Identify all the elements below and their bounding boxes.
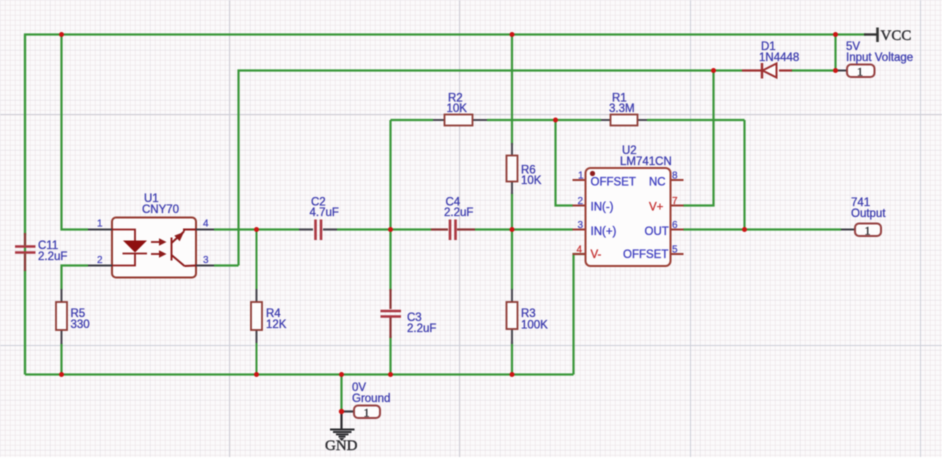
- svg-text:1: 1: [578, 171, 584, 182]
- svg-text:OFFSET: OFFSET: [623, 249, 668, 261]
- svg-text:R3: R3: [521, 308, 536, 320]
- U1 pin stubs: [88, 229, 112, 231]
- wire R3 to bottom: [511, 342, 513, 375]
- svg-text:2: 2: [97, 255, 103, 266]
- terminal 5V Input Voltage: [836, 41, 914, 79]
- resistor R3 100K vertical: [507, 289, 549, 344]
- capacitor C4 2.2uF: [431, 197, 475, 241]
- wire U1 pin4 to main row: [214, 228, 299, 230]
- resistor R1 3.3M horizontal: [601, 93, 647, 126]
- resistor R2 10K horizontal: [433, 93, 487, 126]
- terminal 0V Ground: [342, 382, 391, 420]
- svg-text:3: 3: [578, 220, 584, 231]
- capacitor C3 2.2uF vertical: [381, 289, 437, 338]
- wire VCC to R6: [511, 35, 513, 146]
- wire C4 to node B: [475, 228, 573, 230]
- VCC power symbol: [864, 28, 911, 45]
- svg-text:1: 1: [97, 219, 103, 230]
- svg-text:Output: Output: [851, 208, 886, 220]
- wire R2 left drop: [389, 120, 391, 230]
- svg-text:7: 7: [672, 196, 678, 207]
- svg-text:6: 6: [672, 220, 678, 231]
- wire OUT row: [683, 228, 841, 230]
- svg-text:4: 4: [203, 219, 209, 230]
- wire bottom rail: [25, 373, 574, 375]
- svg-text:2.2uF: 2.2uF: [407, 323, 436, 335]
- svg-text:OUT: OUT: [645, 226, 669, 238]
- wire R5 to bottom: [60, 343, 62, 375]
- svg-text:1: 1: [865, 224, 871, 238]
- svg-text:8: 8: [672, 171, 678, 182]
- svg-text:LM741CN: LM741CN: [620, 156, 672, 168]
- svg-text:2.2uF: 2.2uF: [38, 251, 67, 263]
- wire ground drop: [340, 375, 342, 412]
- svg-text:1N4448: 1N4448: [759, 52, 799, 64]
- svg-text:IN(-): IN(-): [591, 202, 614, 214]
- svg-text:GND: GND: [325, 438, 358, 454]
- wire VCC top rail: [25, 35, 866, 375]
- svg-text:10K: 10K: [447, 103, 468, 115]
- svg-text:2: 2: [578, 196, 584, 207]
- U2 pin stubs: [573, 180, 684, 254]
- terminal 741 Output: [841, 197, 886, 238]
- svg-text:5: 5: [672, 245, 678, 256]
- wire U1 pin2 to R5: [62, 266, 89, 291]
- wire C2 to node A: [337, 228, 431, 230]
- svg-text:Ground: Ground: [352, 393, 390, 405]
- U1 phototransistor: [172, 230, 197, 267]
- wire 5V row (left of D1): [239, 71, 743, 266]
- wire C3 bottom: [389, 336, 391, 375]
- svg-text:12K: 12K: [266, 319, 287, 331]
- resistor R5 330 vertical: [56, 289, 90, 344]
- resistor R4 12K vertical: [251, 230, 287, 375]
- wire C11 bottom: [24, 270, 26, 375]
- svg-text:4.7uF: 4.7uF: [310, 207, 339, 219]
- svg-text:3: 3: [203, 255, 209, 266]
- wire C3 top: [389, 230, 391, 292]
- U1 light arrows: [151, 238, 167, 258]
- svg-text:CNY70: CNY70: [142, 204, 179, 216]
- ground symbol GND: [325, 412, 358, 455]
- capacitor C2 4.7uF: [299, 197, 339, 241]
- svg-text:VCC: VCC: [881, 28, 912, 44]
- wire U1 pin1: [62, 35, 89, 230]
- svg-text:OFFSET: OFFSET: [591, 177, 636, 189]
- resistor R6 10K vertical: [507, 143, 542, 194]
- svg-text:V+: V+: [649, 202, 664, 214]
- svg-text:NC: NC: [649, 177, 666, 189]
- diode D1 1N4448: [742, 41, 799, 79]
- svg-text:1: 1: [857, 65, 863, 79]
- svg-text:IN(+): IN(+): [591, 226, 617, 238]
- svg-text:4: 4: [577, 245, 583, 256]
- svg-text:2.2uF: 2.2uF: [444, 207, 473, 219]
- optocoupler U1 CNY70: [88, 193, 214, 278]
- wire R1 output drop: [743, 120, 745, 230]
- svg-text:V-: V-: [591, 249, 602, 261]
- capacitor C11 2.2uF vertical: [15, 233, 67, 271]
- wire VCC terminal drop: [834, 35, 836, 71]
- svg-text:3.3M: 3.3M: [609, 103, 635, 115]
- wire C11 top: [24, 35, 26, 236]
- wire D1 to input terminal: [791, 69, 839, 71]
- wire V- drop: [574, 254, 586, 375]
- wire V+ to 5V row: [683, 71, 714, 206]
- svg-text:100K: 100K: [521, 320, 548, 332]
- wire R6 to node B: [511, 193, 513, 230]
- svg-text:10K: 10K: [521, 175, 542, 187]
- wire IN- drop: [556, 120, 574, 206]
- op-amp U2 LM741CN: [573, 145, 684, 266]
- svg-text:Input Voltage: Input Voltage: [846, 52, 913, 64]
- U1 LED: [112, 230, 147, 266]
- wire U1 pin3: [214, 264, 239, 266]
- wire node B to R3: [511, 230, 513, 291]
- svg-text:330: 330: [71, 319, 90, 331]
- wire R2 feedback row: [391, 119, 434, 121]
- svg-text:1: 1: [364, 406, 370, 420]
